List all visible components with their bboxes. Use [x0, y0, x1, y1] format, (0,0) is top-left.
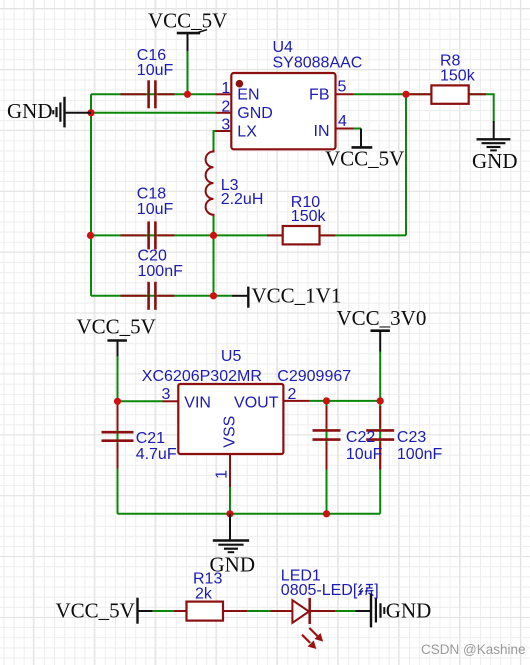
- R10 value: [291, 208, 327, 225]
- svg-text:4.7uF: 4.7uF: [136, 446, 177, 463]
- svg-text:3: 3: [221, 117, 230, 134]
- junction C22 top: [323, 397, 330, 404]
- svg-text:GND: GND: [7, 99, 53, 123]
- R8 value: [440, 67, 476, 84]
- svg-text:C23: C23: [397, 429, 426, 446]
- junction L3 bottom: [210, 232, 217, 239]
- L3 reference label: [221, 177, 239, 194]
- U5 pin name VOUT: [234, 394, 279, 411]
- ground GND top right: [472, 121, 518, 173]
- U4 value SY8088AAC: [273, 55, 363, 72]
- junction C20 right: [210, 292, 217, 299]
- C22 value: [346, 446, 383, 463]
- U4 pin 4: [336, 128, 354, 130]
- wire FB node vertical: [405, 94, 407, 235]
- svg-text:10uF: 10uF: [137, 201, 174, 218]
- svg-text:VCC_1V1: VCC_1V1: [252, 283, 342, 307]
- svg-text:VCC_5V: VCC_5V: [56, 598, 135, 622]
- svg-text:IN: IN: [314, 123, 330, 140]
- svg-text:U4: U4: [273, 39, 294, 56]
- wire C21 branch: [117, 401, 119, 514]
- U4 pin name EN: [237, 87, 259, 104]
- wire VOUT row: [309, 400, 380, 402]
- wire LX pin to L3: [214, 131, 216, 150]
- svg-text:150k: 150k: [440, 67, 476, 84]
- svg-text:1: 1: [214, 470, 231, 479]
- svg-text:GND: GND: [237, 105, 273, 122]
- svg-text:GND: GND: [386, 599, 432, 623]
- svg-text:VCC_5V: VCC_5V: [148, 8, 227, 32]
- C20 reference label: [138, 248, 167, 265]
- svg-text:100nF: 100nF: [138, 263, 184, 280]
- U5 part number C2909967: [277, 368, 351, 385]
- net flag VCC_1V1: [232, 283, 342, 307]
- wire mid vertical C18 to C20: [213, 235, 215, 295]
- U4 pin 1: [216, 93, 232, 95]
- wire C16 row (EN net): [91, 93, 216, 95]
- capacitor C16: [121, 80, 175, 108]
- svg-text:100nF: 100nF: [397, 446, 443, 463]
- LED1 reference label: [281, 568, 321, 585]
- wire VIN row: [118, 400, 164, 402]
- U4 pin 3: [216, 130, 232, 132]
- svg-text:1: 1: [221, 80, 230, 97]
- U4 pin number 2: [221, 98, 230, 115]
- U5 value XC6206P302MR: [142, 368, 262, 385]
- svg-text:150k: 150k: [291, 208, 327, 225]
- wire LED to GND flag: [335, 610, 355, 612]
- U5 pin 2: [283, 400, 309, 402]
- C21 value: [136, 446, 177, 463]
- U5 pin 1: [229, 454, 231, 487]
- net flag VCC_5V bottom: [56, 598, 153, 624]
- resistor R10: [267, 226, 335, 244]
- wire R13 to LED: [247, 610, 271, 612]
- U4 pin number 4: [338, 113, 347, 130]
- U5 pin name VIN: [184, 394, 211, 411]
- svg-text:C22: C22: [346, 429, 375, 446]
- capacitor C21: [102, 405, 134, 469]
- C16 reference label: [137, 47, 166, 64]
- U4 reference label: [273, 39, 294, 56]
- L3 value: [221, 191, 264, 208]
- svg-text:10uF: 10uF: [346, 446, 383, 463]
- svg-text:U5: U5: [221, 348, 242, 365]
- LED light arrows: [302, 628, 322, 648]
- LED LED1 diode: [271, 598, 336, 624]
- U4 pin name FB: [309, 87, 329, 104]
- svg-text:10uF: 10uF: [137, 62, 174, 79]
- svg-text:SY8088AAC: SY8088AAC: [273, 55, 363, 72]
- svg-text:EN: EN: [237, 87, 259, 104]
- svg-text:GND: GND: [472, 149, 518, 173]
- C20 value: [138, 263, 184, 280]
- R13 value: [195, 586, 213, 603]
- svg-text:0805-LED[: 0805-LED[: [281, 582, 358, 599]
- svg-text:2: 2: [288, 386, 297, 403]
- wire bottom rail: [118, 513, 381, 515]
- C18 reference label: [137, 186, 166, 203]
- U4 pin number 5: [338, 79, 347, 96]
- U4 pin name IN: [314, 123, 330, 140]
- junction FB node: [402, 91, 409, 98]
- svg-text:2: 2: [221, 98, 230, 115]
- C16 value: [137, 62, 174, 79]
- C23 reference label: [397, 429, 426, 446]
- capacitor C22: [313, 406, 341, 470]
- wire C23 / VCC_3V0 branch: [379, 351, 381, 514]
- ground flag GND bottom right: [355, 594, 431, 628]
- capacitor C18: [121, 221, 175, 249]
- U5 pin 3: [163, 400, 179, 402]
- junction VCC_3V0 node: [377, 397, 384, 404]
- svg-text:2.2uH: 2.2uH: [221, 191, 264, 208]
- wire C20 row to VCC_1V1: [91, 295, 232, 297]
- wire C22 branch: [326, 401, 328, 514]
- LED1 value 0805-LED[green]: [281, 582, 379, 599]
- capacitor C20: [121, 282, 175, 310]
- svg-text:FB: FB: [309, 87, 329, 104]
- R10 reference label: [291, 194, 320, 211]
- svg-text:C2909967: C2909967: [277, 368, 351, 385]
- junction C18 left: [87, 232, 94, 239]
- U5 pin number 1: [214, 470, 231, 479]
- power flag VCC_5V top: [148, 8, 227, 51]
- regulator U5 body: [178, 384, 283, 454]
- svg-text:VOUT: VOUT: [234, 394, 279, 411]
- power flag VCC_5V mid: [77, 315, 156, 357]
- wire FB row to R8 and GND drop: [354, 94, 494, 121]
- wire VCC_5V mid stem: [117, 356, 119, 401]
- wire L3 bottom to junction: [213, 216, 215, 236]
- svg-text:VCC_5V: VCC_5V: [77, 315, 156, 339]
- svg-text:4: 4: [338, 113, 347, 130]
- U4 pin number 3: [221, 117, 230, 134]
- inductor L3: [206, 150, 214, 217]
- U5 pin number 3: [162, 386, 171, 403]
- wire GND row (pin 2 net): [91, 112, 216, 114]
- svg-text:]: ]: [374, 582, 378, 599]
- wire VCC_5V stem to C16 row: [187, 51, 189, 95]
- svg-text:VIN: VIN: [184, 394, 211, 411]
- junction VIN node: [114, 398, 121, 405]
- power flag VCC_5V at pin 4: [325, 129, 404, 171]
- resistor R13: [174, 602, 247, 621]
- ground GND mid: [210, 514, 256, 577]
- wire left vertical bus: [90, 94, 92, 295]
- svg-text:VCC_3V0: VCC_3V0: [337, 306, 427, 330]
- ground flag GND left: [7, 97, 91, 128]
- U5 pin name VSS: [221, 416, 238, 448]
- resistor R8: [406, 85, 486, 103]
- junction C22 bottom: [323, 510, 330, 517]
- wire pin4 to VCC stem: [354, 128, 362, 130]
- svg-text:C21: C21: [136, 430, 165, 447]
- C18 value: [137, 201, 174, 218]
- junction VSS node: [226, 510, 233, 517]
- C21 reference label: [136, 430, 165, 447]
- svg-text:VCC_5V: VCC_5V: [325, 146, 404, 170]
- U5 reference label: [221, 348, 242, 365]
- svg-text:XC6206P302MR: XC6206P302MR: [142, 368, 262, 385]
- svg-text:VSS: VSS: [221, 416, 238, 448]
- junction GND left: [87, 109, 94, 116]
- svg-text:2k: 2k: [195, 586, 213, 603]
- wire C18 / R10 row: [91, 234, 407, 236]
- R8 reference label: [440, 53, 461, 70]
- C22 reference label: [346, 429, 375, 446]
- C23 value: [397, 446, 443, 463]
- svg-text:C18: C18: [137, 186, 166, 203]
- wire bottom row left: [153, 610, 174, 612]
- U4 pin name LX: [237, 124, 257, 141]
- watermark: [421, 642, 526, 657]
- U4 pin 5: [336, 93, 354, 95]
- junction C16/VCC: [184, 91, 191, 98]
- svg-text:CSDN @Kashine: CSDN @Kashine: [421, 642, 526, 657]
- U5 pin number 2: [288, 386, 297, 403]
- svg-text:LX: LX: [237, 124, 257, 141]
- svg-text:3: 3: [162, 386, 171, 403]
- op-amp U4 body: [231, 73, 335, 149]
- svg-text:5: 5: [338, 79, 347, 96]
- U4 pin number 1: [221, 80, 230, 97]
- wire VSS to rail: [229, 487, 231, 514]
- R13 reference label: [193, 570, 222, 587]
- power flag VCC_3V0: [337, 306, 427, 351]
- U4 pin name GND: [237, 105, 273, 122]
- capacitor C23: [366, 406, 394, 470]
- U4 pin 2: [216, 112, 232, 114]
